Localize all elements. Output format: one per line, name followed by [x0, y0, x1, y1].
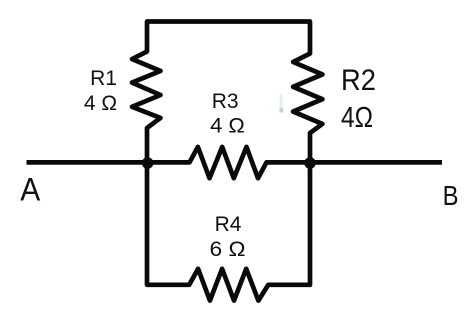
svg-text:4Ω: 4Ω	[341, 102, 373, 134]
svg-text:R4: R4	[215, 213, 242, 236]
svg-text:B: B	[443, 180, 459, 211]
svg-text:6 Ω: 6 Ω	[210, 238, 246, 261]
svg-text:R3: R3	[212, 90, 239, 113]
svg-text:4 Ω: 4 Ω	[210, 115, 245, 138]
svg-text:R2: R2	[341, 64, 376, 97]
svg-text:A: A	[20, 171, 41, 207]
svg-text:4 Ω: 4 Ω	[84, 92, 117, 115]
svg-text:R1: R1	[90, 67, 117, 90]
